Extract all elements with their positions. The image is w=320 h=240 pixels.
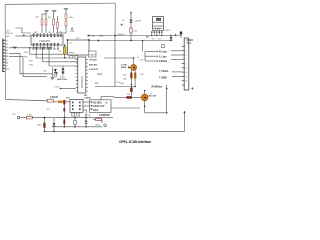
svg-text:OPEL 4CAN Interface: OPEL 4CAN Interface bbox=[119, 140, 151, 144]
svg-text:0.56R/2W: 0.56R/2W bbox=[99, 114, 110, 117]
svg-text:LED1: LED1 bbox=[95, 125, 101, 127]
svg-text:GND: GND bbox=[161, 77, 167, 80]
svg-text:8: 8 bbox=[57, 46, 58, 48]
svg-text:4.7uF: 4.7uF bbox=[115, 82, 121, 84]
svg-text:RST: RST bbox=[98, 74, 103, 76]
svg-text:SS24: SS24 bbox=[165, 30, 171, 32]
svg-text:+5V: +5V bbox=[70, 30, 75, 33]
svg-text:ISP: ISP bbox=[6, 36, 10, 38]
svg-text:L4940: L4940 bbox=[85, 96, 92, 99]
svg-text:K-Line: K-Line bbox=[159, 51, 167, 54]
svg-text:16-1: 16-1 bbox=[187, 43, 192, 45]
svg-text:4.7uF: 4.7uF bbox=[54, 87, 60, 89]
svg-text:1.6A: 1.6A bbox=[27, 113, 32, 116]
svg-text:OBD2: OBD2 bbox=[187, 40, 194, 42]
svg-text:MCP2515: MCP2515 bbox=[80, 76, 84, 88]
svg-text:100n: 100n bbox=[69, 17, 75, 19]
svg-text:8MHz: 8MHz bbox=[69, 53, 75, 55]
svg-text:GND 100n: GND 100n bbox=[57, 79, 68, 81]
svg-text:RXCAN: RXCAN bbox=[89, 63, 97, 66]
svg-text:1uF: 1uF bbox=[35, 17, 39, 19]
svg-text:16MHz: 16MHz bbox=[89, 54, 96, 56]
svg-text:3: 3 bbox=[40, 46, 41, 48]
svg-text:L78L05: L78L05 bbox=[50, 97, 59, 99]
svg-text:LL4148: LL4148 bbox=[134, 21, 142, 23]
svg-text:1: 1 bbox=[33, 46, 34, 48]
svg-text:100uF 16V: 100uF 16V bbox=[93, 106, 105, 108]
svg-text:BC 547: BC 547 bbox=[149, 94, 157, 97]
svg-text:0.5A: 0.5A bbox=[90, 34, 95, 37]
svg-text:CLKOUT: CLKOUT bbox=[89, 69, 99, 71]
svg-text:7: 7 bbox=[54, 46, 55, 48]
svg-text:6: 6 bbox=[50, 46, 51, 48]
svg-text:100n: 100n bbox=[93, 110, 99, 112]
svg-text:10k: 10k bbox=[48, 17, 51, 19]
svg-text:74HC257: 74HC257 bbox=[39, 39, 51, 43]
svg-text:TXCAN: TXCAN bbox=[89, 58, 97, 61]
svg-text:5: 5 bbox=[47, 46, 48, 48]
svg-text:11: 11 bbox=[50, 34, 52, 36]
svg-text:12V: 12V bbox=[12, 114, 16, 116]
svg-text:L-Line: L-Line bbox=[159, 55, 167, 58]
svg-text:13: 13 bbox=[43, 34, 45, 36]
svg-text:RXD/New: RXD/New bbox=[152, 86, 163, 89]
svg-text:CAN-H: CAN-H bbox=[159, 60, 167, 63]
svg-text:CAN-L: CAN-L bbox=[161, 70, 169, 73]
svg-text:1N 5819: 1N 5819 bbox=[93, 103, 102, 105]
svg-text:1N4001: 1N4001 bbox=[117, 34, 125, 36]
svg-text:CS: CS bbox=[95, 83, 99, 85]
svg-text:100n: 100n bbox=[37, 124, 43, 126]
svg-text:15: 15 bbox=[37, 34, 39, 36]
svg-text:16: 16 bbox=[33, 34, 35, 36]
